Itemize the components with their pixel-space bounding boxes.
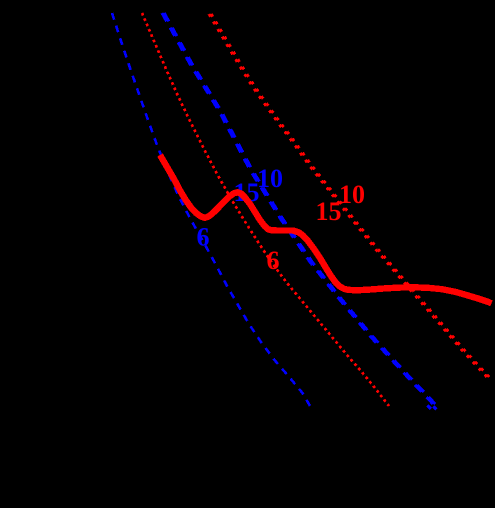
svg-text:10: 10 — [257, 164, 283, 193]
svg-text:10: 10 — [339, 180, 365, 209]
curve R1: thin red dotted, label 6 — [142, 13, 389, 406]
curve B2 clipped end fragments at bottom axis — [428, 406, 437, 410]
curve R2 pair (15): left copy — [209, 14, 487, 377]
svg-text:15: 15 — [316, 197, 342, 226]
curve B2 pair (15): left copy — [162, 13, 433, 404]
curve B2 pair (10): right copy — [164, 13, 435, 404]
curve R2 pair (10): right copy — [211, 14, 489, 377]
curve B1: thin blue dashed, label 6 — [112, 13, 310, 406]
svg-text:6: 6 — [267, 246, 280, 275]
svg-text:6: 6 — [197, 223, 210, 252]
curve S: thick red solid (drawn last, on top) — [160, 155, 492, 303]
